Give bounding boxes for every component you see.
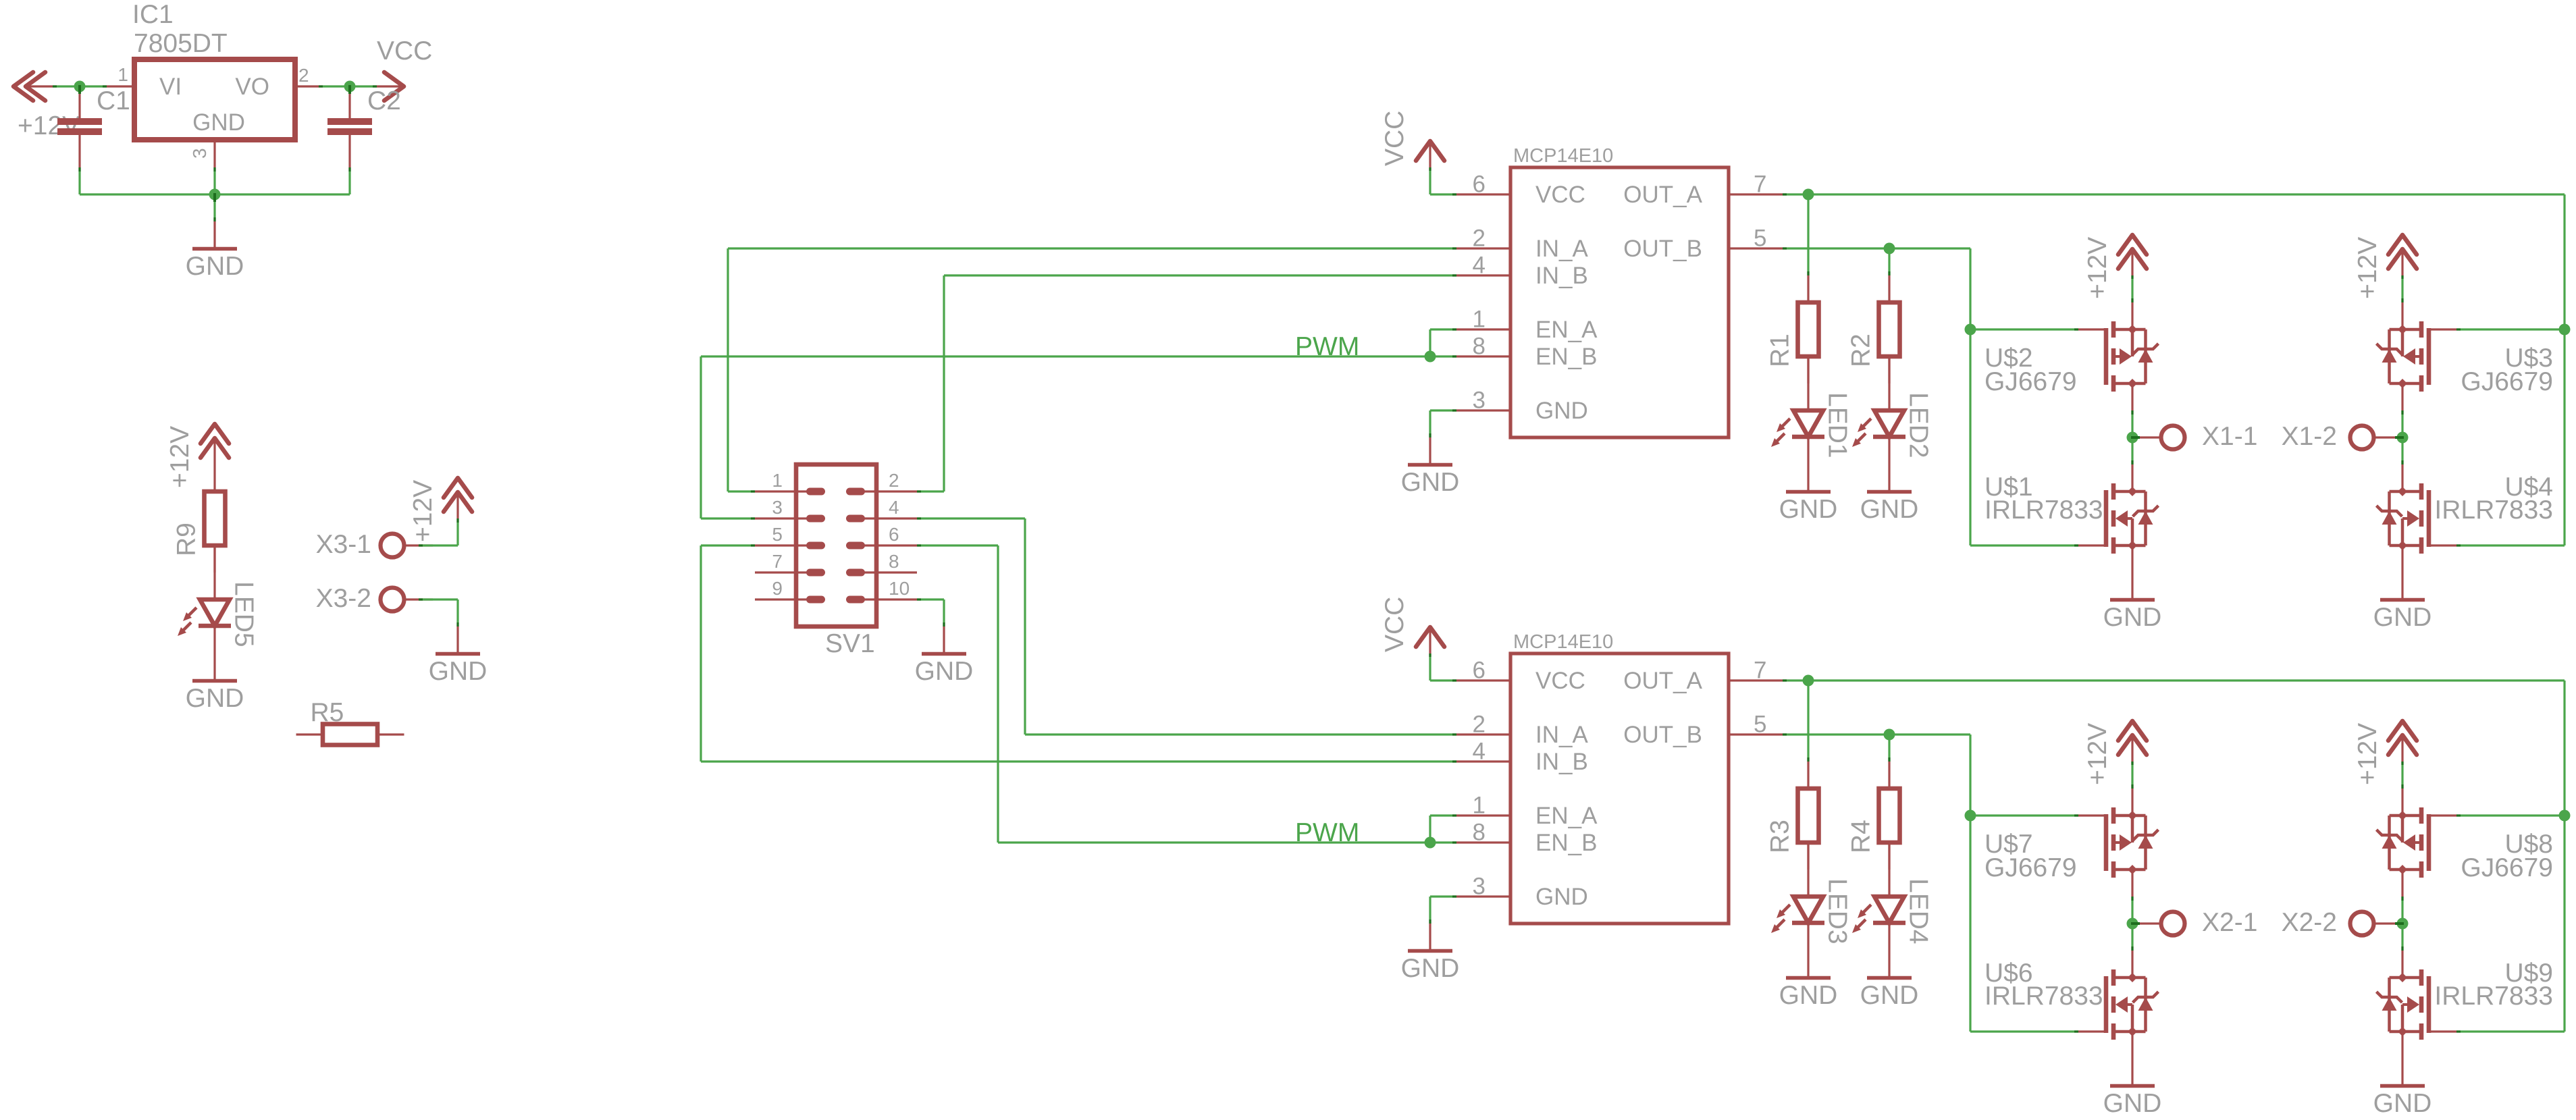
wire joint xyxy=(751,544,755,546)
wire joint xyxy=(1452,895,1456,897)
svg-text:7: 7 xyxy=(1754,658,1766,684)
wire xyxy=(2456,1030,2565,1032)
svg-text:R5: R5 xyxy=(311,698,344,727)
wire xyxy=(2563,681,2565,1032)
pin number 2 xyxy=(1473,712,1486,738)
wire xyxy=(2131,275,2133,302)
pin number 5 xyxy=(772,524,783,545)
wire joint xyxy=(1429,433,1431,437)
wire joint xyxy=(2401,460,2403,464)
net label PWM xyxy=(1295,818,1359,847)
label LED4 xyxy=(1904,878,1933,944)
svg-text:GND: GND xyxy=(186,684,244,713)
ground xyxy=(192,221,237,249)
pin 5 OUT_B xyxy=(1729,733,1783,735)
label IRLR7833 xyxy=(2434,496,2553,525)
MOSFET U$3 xyxy=(2377,302,2457,410)
pin number 6 xyxy=(889,524,899,545)
svg-text:R1: R1 xyxy=(1766,334,1795,367)
wire xyxy=(728,490,755,492)
wire xyxy=(1783,193,2565,195)
wire joint xyxy=(78,167,80,171)
power symbol +12V xyxy=(2388,721,2417,762)
LED LED4 xyxy=(1852,843,1905,951)
svg-text:GND: GND xyxy=(192,109,245,136)
pin name VCC xyxy=(1535,668,1585,694)
wire xyxy=(2401,897,2403,951)
wire xyxy=(1888,248,1890,275)
pin number 5 xyxy=(1754,225,1766,252)
pin 2 IN_A xyxy=(1456,247,1510,249)
ground xyxy=(1867,464,1912,492)
label +12V xyxy=(2083,723,2112,785)
IC MCP14E10 driver xyxy=(1510,654,1729,924)
pin 6 xyxy=(850,544,918,546)
wire joint xyxy=(2401,897,2403,901)
svg-text:EN_A: EN_A xyxy=(1535,317,1598,343)
pad X1-1 xyxy=(2132,426,2185,450)
pin 6 VCC xyxy=(1456,193,1510,195)
svg-text:R9: R9 xyxy=(172,523,201,556)
pin 4 IN_B xyxy=(1456,274,1510,276)
wire joint xyxy=(1783,193,1787,195)
wire joint xyxy=(1429,167,1431,171)
svg-text:8: 8 xyxy=(1473,334,1486,360)
pin 1 VI xyxy=(107,85,134,87)
wire joint xyxy=(456,622,458,626)
svg-text:6: 6 xyxy=(1473,658,1486,684)
wire xyxy=(53,85,107,87)
label GJ6679 xyxy=(1984,367,2077,396)
wire xyxy=(456,518,458,545)
svg-text:LED3: LED3 xyxy=(1823,878,1852,944)
wire joint xyxy=(2074,814,2078,816)
wire joint xyxy=(1429,919,1431,924)
wire xyxy=(1025,733,1456,735)
pin 7 xyxy=(755,571,822,573)
power symbol +12V xyxy=(201,424,229,464)
svg-text:GND: GND xyxy=(1535,398,1588,424)
label R2 xyxy=(1847,334,1876,367)
pad X3-2 xyxy=(381,588,433,612)
svg-text:LED2: LED2 xyxy=(1904,392,1933,458)
pin name IN_A xyxy=(1535,722,1588,748)
wire joint xyxy=(917,544,921,546)
wire joint xyxy=(1452,679,1456,681)
label U$6 xyxy=(1984,959,2033,988)
wire xyxy=(78,167,80,194)
svg-text:MCP14E10: MCP14E10 xyxy=(1513,145,1613,167)
wire joint xyxy=(2074,1030,2078,1032)
svg-text:R3: R3 xyxy=(1766,820,1795,853)
wire joint xyxy=(2131,460,2133,464)
svg-text:2: 2 xyxy=(1473,712,1486,738)
label X1-2 xyxy=(2282,422,2337,451)
label GND xyxy=(2373,603,2432,632)
wire joint xyxy=(2401,275,2403,279)
wire xyxy=(1969,248,1971,545)
wire xyxy=(1430,814,1456,816)
pin 3 GND xyxy=(1456,895,1510,897)
ground xyxy=(922,626,966,654)
label +12V xyxy=(2083,237,2112,299)
label LED5 xyxy=(230,581,259,647)
svg-text:IRLR7833: IRLR7833 xyxy=(1984,982,2103,1011)
wire xyxy=(943,599,945,626)
resistor R2 xyxy=(1879,275,1900,383)
pin number 3 xyxy=(189,148,210,159)
wire joint xyxy=(319,85,323,87)
svg-text:VCC: VCC xyxy=(1535,668,1585,694)
wire xyxy=(80,193,215,195)
svg-text:GND: GND xyxy=(2103,603,2162,632)
label U$4 xyxy=(2504,473,2553,502)
svg-text:VI: VI xyxy=(159,74,182,100)
wire joint xyxy=(1807,271,1809,275)
wire xyxy=(2563,194,2565,545)
junction xyxy=(1425,837,1436,849)
label VCC xyxy=(1380,597,1409,652)
pin name GND xyxy=(1535,884,1588,910)
junction xyxy=(2127,918,2140,930)
pin 3 GND xyxy=(213,140,215,167)
wire joint xyxy=(751,490,755,492)
svg-text:VCC: VCC xyxy=(1380,111,1409,166)
label U$1 xyxy=(1984,473,2033,502)
svg-text:GND: GND xyxy=(1779,495,1838,524)
ground xyxy=(1408,437,1452,465)
svg-text:3: 3 xyxy=(189,148,210,159)
capacitor C2 xyxy=(327,86,372,167)
wire xyxy=(2131,762,2133,789)
wire joint xyxy=(2456,544,2461,546)
MOSFET U$9 xyxy=(2377,951,2457,1059)
wire joint xyxy=(103,85,107,87)
pin 2 xyxy=(850,490,918,492)
svg-text:3: 3 xyxy=(1473,874,1486,900)
junction xyxy=(1803,675,1814,687)
wire xyxy=(1430,841,1456,843)
svg-text:2: 2 xyxy=(889,470,899,491)
svg-text:OUT_B: OUT_B xyxy=(1623,236,1702,262)
label GND xyxy=(1860,495,1919,524)
svg-text:VO: VO xyxy=(235,74,269,100)
pin name OUT_A xyxy=(1623,182,1702,208)
svg-text:GND: GND xyxy=(1401,954,1460,983)
pad X2-1 xyxy=(2132,912,2185,936)
wire xyxy=(944,274,1456,276)
wire joint xyxy=(1452,193,1456,195)
pin number 4 xyxy=(889,497,899,518)
wire joint xyxy=(1429,654,1431,657)
junction xyxy=(1884,243,1895,255)
junction xyxy=(344,81,356,95)
svg-text:4: 4 xyxy=(1473,739,1486,765)
label U$8 xyxy=(2504,830,2553,859)
pin number 4 xyxy=(1473,739,1486,765)
pin number 1 xyxy=(117,64,128,85)
wire joint xyxy=(1783,733,1787,735)
svg-text:4: 4 xyxy=(1473,252,1486,279)
net label PWM xyxy=(1295,332,1359,361)
wire xyxy=(2131,897,2133,951)
label +12V xyxy=(409,480,438,542)
wire xyxy=(213,167,215,194)
wire joint xyxy=(2131,298,2133,302)
pin number 5 xyxy=(1754,712,1766,738)
label +12V xyxy=(18,111,80,140)
wire xyxy=(1430,328,1456,330)
pin 1 EN_A xyxy=(1456,328,1510,330)
svg-text:GND: GND xyxy=(186,252,244,281)
label LED1 xyxy=(1823,392,1852,458)
pin 8 xyxy=(850,571,918,573)
wire xyxy=(997,545,999,843)
pin 9 xyxy=(755,598,822,600)
wire xyxy=(917,490,944,492)
svg-text:2: 2 xyxy=(1473,225,1486,252)
svg-text:+12V: +12V xyxy=(2083,723,2112,785)
wire joint xyxy=(213,217,215,221)
pin name GND xyxy=(192,109,245,136)
wire xyxy=(2456,544,2565,546)
capacitor C1 xyxy=(57,86,102,167)
wire xyxy=(2401,275,2403,302)
svg-text:X1-2: X1-2 xyxy=(2282,422,2337,451)
label GND xyxy=(186,684,244,713)
svg-text:GND: GND xyxy=(2373,603,2432,632)
wire joint xyxy=(2401,762,2403,765)
wire joint xyxy=(2131,275,2133,279)
junction xyxy=(2127,432,2140,444)
pin name VO xyxy=(235,74,269,100)
svg-text:IN_A: IN_A xyxy=(1535,722,1588,748)
wire joint xyxy=(2131,946,2133,951)
pin number 6 xyxy=(1473,658,1486,684)
svg-text:C2: C2 xyxy=(367,86,401,115)
svg-text:IRLR7833: IRLR7833 xyxy=(2434,982,2553,1011)
svg-text:+12V: +12V xyxy=(165,426,194,488)
label GJ6679 xyxy=(1984,853,2077,882)
label U$7 xyxy=(1984,830,2033,859)
wire joint xyxy=(751,517,755,519)
label GND xyxy=(915,657,974,686)
label X3-2 xyxy=(316,584,371,613)
svg-text:PWM: PWM xyxy=(1295,818,1359,847)
wire xyxy=(917,598,944,600)
wire xyxy=(700,356,702,518)
pin name IN_B xyxy=(1535,263,1588,289)
junction xyxy=(1803,189,1814,201)
label R1 xyxy=(1766,334,1795,367)
svg-text:GND: GND xyxy=(1779,981,1838,1010)
pin name VI xyxy=(159,74,182,100)
wire joint xyxy=(1888,757,1890,762)
wire xyxy=(1429,167,1431,194)
pin number 4 xyxy=(1473,252,1486,279)
pin name EN_A xyxy=(1535,317,1598,343)
ground xyxy=(2380,572,2425,600)
label VCC xyxy=(377,36,432,65)
pin 4 xyxy=(850,517,918,519)
svg-text:R4: R4 xyxy=(1847,820,1876,853)
pin number 1 xyxy=(1473,306,1486,333)
wire xyxy=(2401,410,2403,464)
ground xyxy=(2110,1059,2155,1086)
LED LED1 xyxy=(1771,356,1824,464)
pin number 9 xyxy=(772,578,783,599)
label LED3 xyxy=(1823,878,1852,944)
power symbol +12V (input arrow) xyxy=(14,72,53,101)
pin 2 IN_A xyxy=(1456,733,1510,735)
wire joint xyxy=(1807,757,1809,762)
junction xyxy=(74,81,86,95)
power symbol VCC xyxy=(1416,627,1444,654)
wire xyxy=(213,194,215,221)
pin number 3 xyxy=(772,497,783,518)
MOSFET U$1 xyxy=(2078,464,2159,572)
svg-text:OUT_B: OUT_B xyxy=(1623,722,1702,748)
svg-text:+12V: +12V xyxy=(2353,723,2382,785)
wire joint xyxy=(1452,841,1456,843)
wire xyxy=(1783,679,2565,681)
svg-text:7: 7 xyxy=(1754,171,1766,198)
junction xyxy=(2559,810,2571,822)
pin name VCC xyxy=(1535,182,1585,208)
power symbol +12V xyxy=(2118,235,2147,275)
wire xyxy=(1807,681,1809,762)
wire joint xyxy=(2401,410,2403,415)
pin 10 xyxy=(850,598,918,600)
wire xyxy=(728,247,1456,249)
svg-text:MCP14E10: MCP14E10 xyxy=(1513,631,1613,653)
pin name GND xyxy=(1535,398,1588,424)
ground xyxy=(1786,464,1831,492)
wire xyxy=(700,545,702,762)
junction xyxy=(1965,324,1976,336)
label R3 xyxy=(1766,820,1795,853)
svg-text:GND: GND xyxy=(1860,495,1919,524)
wire joint xyxy=(348,167,350,171)
ground xyxy=(192,654,237,681)
label R9 xyxy=(172,523,201,556)
wire xyxy=(917,544,998,546)
junction xyxy=(2559,324,2571,336)
pin number 10 xyxy=(889,578,910,599)
pin number 3 xyxy=(1473,388,1486,414)
pin 8 EN_B xyxy=(1456,841,1510,843)
wire xyxy=(1430,679,1456,681)
label SV1 xyxy=(825,629,875,658)
label U$9 xyxy=(2504,959,2553,988)
wire xyxy=(2456,328,2565,330)
wire xyxy=(323,85,377,87)
pin name IN_B xyxy=(1535,749,1588,775)
pin number 8 xyxy=(1473,334,1486,360)
wire joint xyxy=(2401,946,2403,951)
svg-text:8: 8 xyxy=(1473,820,1486,846)
wire xyxy=(1429,329,1431,356)
wire xyxy=(1430,895,1456,897)
pin number 2 xyxy=(1473,225,1486,252)
wire xyxy=(1783,247,1970,249)
svg-text:GJ6679: GJ6679 xyxy=(2461,367,2553,396)
wire joint xyxy=(2401,298,2403,302)
wire joint xyxy=(1452,328,1456,330)
svg-text:5: 5 xyxy=(772,524,783,545)
wire joint xyxy=(2456,328,2461,330)
label C2 xyxy=(367,86,401,115)
wire joint xyxy=(1452,409,1456,411)
svg-text:5: 5 xyxy=(1754,225,1766,252)
wire xyxy=(701,355,1430,357)
wire xyxy=(701,517,755,519)
pin name EN_A xyxy=(1535,803,1598,829)
junction xyxy=(1884,729,1895,741)
svg-text:1: 1 xyxy=(772,470,783,491)
LED LED3 xyxy=(1771,843,1824,951)
wire joint xyxy=(1452,760,1456,762)
ground xyxy=(436,626,480,654)
pin number 1 xyxy=(1473,793,1486,819)
wire xyxy=(1969,735,1971,1032)
MOSFET U$4 xyxy=(2377,464,2457,572)
svg-text:8: 8 xyxy=(889,551,899,572)
svg-text:10: 10 xyxy=(889,578,910,599)
power symbol +12V xyxy=(2118,721,2147,762)
junction xyxy=(209,189,221,203)
svg-text:7: 7 xyxy=(772,551,783,572)
svg-text:OUT_A: OUT_A xyxy=(1623,182,1702,208)
wire joint xyxy=(2131,897,2133,901)
svg-text:1: 1 xyxy=(1473,793,1486,819)
svg-text:R2: R2 xyxy=(1847,334,1876,367)
pin name EN_B xyxy=(1535,830,1597,856)
wire joint xyxy=(917,517,921,519)
label GND xyxy=(186,252,244,281)
wire xyxy=(1970,328,2078,330)
wire xyxy=(1024,518,1026,735)
svg-text:EN_B: EN_B xyxy=(1535,830,1597,856)
wire xyxy=(1970,1030,2078,1032)
pin 5 OUT_B xyxy=(1729,247,1783,249)
wire joint xyxy=(1452,355,1456,357)
wire xyxy=(1429,654,1431,681)
pin 5 xyxy=(755,544,822,546)
pin name OUT_B xyxy=(1623,236,1702,262)
wire xyxy=(2456,814,2565,816)
wire xyxy=(701,760,1456,762)
pin name EN_B xyxy=(1535,344,1597,370)
pin number 7 xyxy=(772,551,783,572)
LED LED2 xyxy=(1852,356,1905,464)
svg-text:4: 4 xyxy=(889,497,899,518)
label X1-1 xyxy=(2202,422,2257,451)
wire joint xyxy=(456,518,458,523)
svg-text:LED1: LED1 xyxy=(1823,392,1852,458)
MOSFET U$6 xyxy=(2078,951,2159,1059)
label U$2 xyxy=(1984,344,2033,373)
wire joint xyxy=(2456,1030,2461,1032)
junction xyxy=(2395,432,2409,444)
pin number 7 xyxy=(1754,171,1766,198)
MOSFET U$7 xyxy=(2078,789,2159,897)
pin 8 EN_B xyxy=(1456,355,1510,357)
pin number 8 xyxy=(1473,820,1486,846)
svg-text:6: 6 xyxy=(1473,171,1486,198)
svg-text:X2-2: X2-2 xyxy=(2282,908,2337,937)
label IRLR7833 xyxy=(1984,982,2103,1011)
